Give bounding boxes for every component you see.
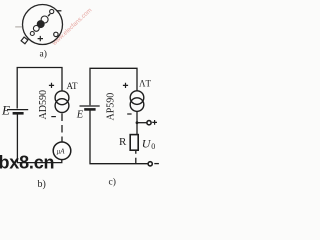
svg-text:AT: AT [67,81,79,91]
svg-text:c): c) [109,177,116,188]
svg-text:E: E [76,109,84,120]
svg-text:b): b) [38,179,46,190]
svg-text:E: E [1,102,10,117]
svg-text:AP590: AP590 [106,93,117,121]
svg-text:μA: μA [57,148,66,156]
svg-text:a): a) [40,49,47,60]
svg-text:AD590: AD590 [38,90,49,119]
svg-text:bx8.cn: bx8.cn [0,153,54,173]
svg-text:0: 0 [151,142,155,151]
svg-text:R: R [119,136,127,148]
svg-text:U: U [142,137,152,151]
svg-text:ΛT: ΛT [139,79,152,89]
